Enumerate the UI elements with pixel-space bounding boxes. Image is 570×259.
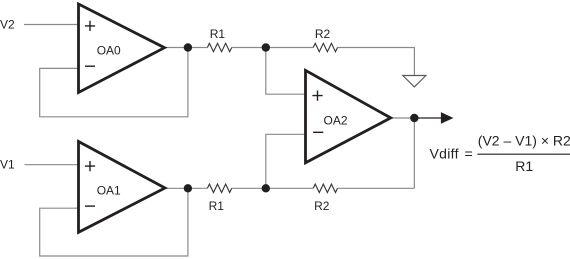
ground symbol bbox=[403, 76, 426, 87]
svg-text:=: = bbox=[465, 146, 473, 162]
OA0 + input pin mark bbox=[85, 21, 95, 31]
OA2 + input pin mark bbox=[312, 91, 322, 101]
output arrow head bbox=[441, 112, 454, 124]
wire top node down to OA2 + input bbox=[266, 48, 306, 95]
wire R2 to ground bbox=[338, 48, 415, 76]
node between R1 and R2 (top) bbox=[262, 43, 270, 51]
wire bottom node up to OA2 - input bbox=[266, 134, 306, 188]
svg-text:Vdiff: Vdiff bbox=[430, 146, 459, 162]
svg-text:R1: R1 bbox=[210, 27, 226, 41]
resistor R2 (bottom) zigzag bbox=[313, 184, 337, 192]
node between R1 and R2 (bottom) bbox=[262, 184, 270, 192]
svg-text:R1: R1 bbox=[515, 158, 533, 174]
wire output node down to bottom feedback bbox=[413, 118, 415, 188]
resistor R1 (top) zigzag bbox=[207, 43, 231, 51]
wire R2 bottom to output node bbox=[338, 187, 415, 189]
wire OA0 feedback (output to - input) bbox=[40, 48, 188, 117]
svg-text:(V2 – V1) × R2: (V2 – V1) × R2 bbox=[478, 133, 570, 149]
svg-text:R2: R2 bbox=[314, 199, 330, 213]
svg-text:OA1: OA1 bbox=[97, 183, 121, 197]
junction OA0 output bbox=[184, 43, 192, 51]
OA1 + input pin mark bbox=[85, 161, 95, 171]
wire R1 to R2 (top node) bbox=[232, 47, 314, 49]
wire V2 input to OA0 + bbox=[24, 24, 79, 26]
op-amp OA1 body bbox=[79, 142, 166, 233]
wire OA2 output to node bbox=[391, 117, 415, 119]
svg-text:V2: V2 bbox=[0, 18, 15, 32]
wire OA1 output to R1 (bottom) bbox=[165, 187, 207, 189]
junction OA1 output bbox=[184, 184, 192, 192]
svg-text:OA2: OA2 bbox=[323, 113, 347, 127]
wire OA1 feedback (output to - input) bbox=[40, 188, 188, 256]
svg-text:OA0: OA0 bbox=[97, 44, 121, 58]
op-amp OA0 body bbox=[79, 4, 165, 93]
OA1 - input pin mark bbox=[85, 205, 95, 207]
op-amp OA2 body bbox=[306, 70, 391, 162]
wire R1 to R2 (bottom node) bbox=[232, 187, 314, 189]
OA2 - input pin mark bbox=[313, 131, 323, 133]
formula fraction bar bbox=[477, 153, 570, 155]
resistor R1 (bottom) zigzag bbox=[207, 184, 231, 192]
svg-text:R1: R1 bbox=[209, 199, 225, 213]
wire output node to arrow bbox=[414, 117, 441, 119]
junction Vdiff output node bbox=[410, 114, 418, 122]
wire OA0 output to R1 bbox=[165, 47, 208, 49]
svg-text:R2: R2 bbox=[315, 27, 331, 41]
OA0 - input pin mark bbox=[85, 65, 95, 67]
wire V1 input to OA1 + bbox=[25, 164, 79, 166]
resistor R2 (top) zigzag bbox=[313, 43, 337, 51]
svg-text:V1: V1 bbox=[0, 157, 15, 171]
